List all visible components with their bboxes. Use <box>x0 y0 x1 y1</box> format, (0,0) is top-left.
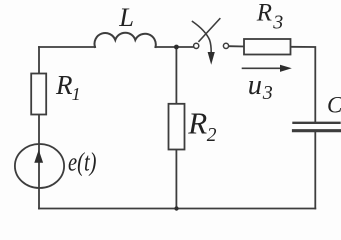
svg-text:e(t): e(t) <box>68 148 97 177</box>
svg-text:R: R <box>187 106 207 141</box>
svg-text:R: R <box>55 70 73 100</box>
svg-text:2: 2 <box>207 125 217 146</box>
svg-text:R: R <box>256 0 272 27</box>
svg-text:C: C <box>327 93 341 118</box>
svg-text:3: 3 <box>272 12 283 34</box>
svg-text:u: u <box>248 70 262 101</box>
svg-text:L: L <box>118 2 134 32</box>
svg-text:1: 1 <box>72 84 81 104</box>
svg-text:3: 3 <box>262 82 273 104</box>
